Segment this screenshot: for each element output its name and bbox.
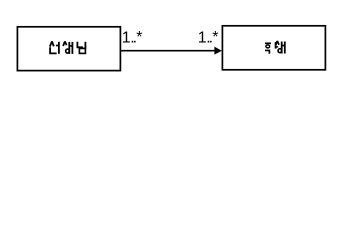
svg-text:1..*: 1..* (198, 29, 219, 47)
label character 학 (hak) (265, 42, 278, 54)
label character 생 (saeng, first) (63, 41, 72, 54)
label character 생 (saeng, second) (276, 41, 285, 54)
label character 선 (seon) (50, 41, 59, 54)
svg-text:1..*: 1..* (122, 29, 143, 47)
arrowhead (214, 47, 221, 55)
label character 님 (nim) (77, 42, 85, 54)
association line (121, 50, 215, 52)
class box 선생님 (teacher) (17, 27, 120, 71)
class box 학생 (student) (222, 26, 325, 70)
